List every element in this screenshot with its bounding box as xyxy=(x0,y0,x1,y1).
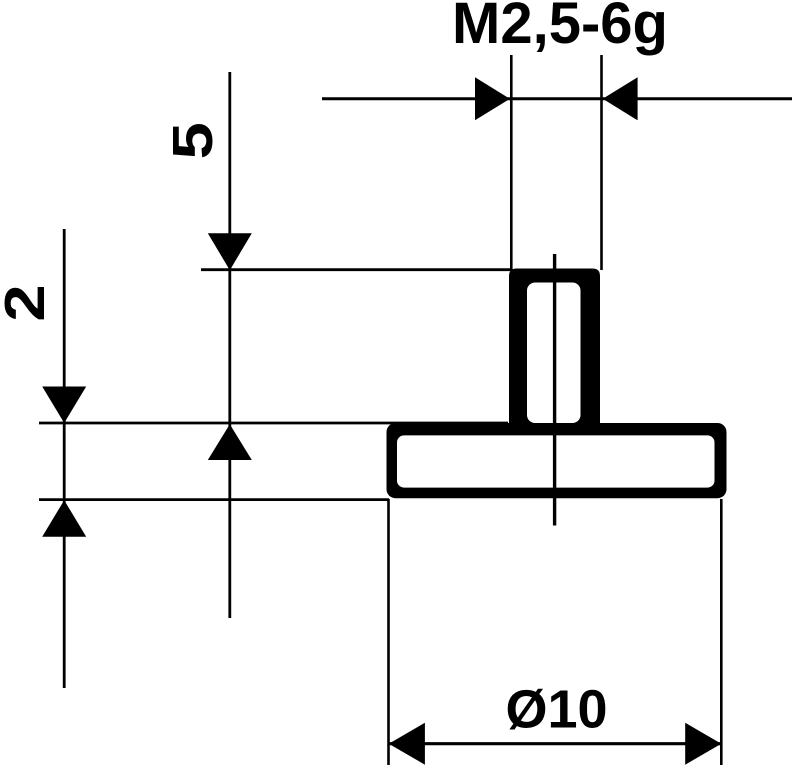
arrow up-pointing at disc top level xyxy=(208,424,252,460)
bottom dimension line xyxy=(389,742,720,745)
svg-text:5: 5 xyxy=(162,122,225,159)
extension line thread left xyxy=(510,55,513,270)
part disc outer xyxy=(387,423,727,498)
part stem outer xyxy=(509,269,600,441)
extension line thread right xyxy=(600,55,603,270)
arrow down-pointing at stem top level xyxy=(208,233,252,270)
svg-text:M2,5-6g: M2,5-6g xyxy=(452,0,668,56)
extension line disc left xyxy=(387,499,390,765)
extension line stem top xyxy=(201,268,512,271)
arrow up-pointing at disc bottom line xyxy=(42,500,86,537)
arrow down-pointing at disc top line xyxy=(42,387,86,424)
arrow left-pointing at thread right xyxy=(603,77,638,120)
dimension line 5 vertical xyxy=(228,72,231,618)
part stem inner bore (white) xyxy=(527,283,581,424)
top dimension line xyxy=(322,97,792,100)
svg-text:2: 2 xyxy=(0,284,57,321)
extension line disc top xyxy=(39,422,508,425)
part disc inner (white) xyxy=(397,435,715,487)
dimension line 2 vertical xyxy=(63,229,66,688)
center line xyxy=(553,254,556,526)
arrow right-pointing at thread left xyxy=(475,77,510,120)
svg-text:Ø10: Ø10 xyxy=(505,680,607,740)
extension line disc bottom xyxy=(39,498,389,501)
arrow right-pointing at disc right xyxy=(685,723,721,765)
arrow left-pointing at disc left xyxy=(389,723,425,765)
extension line disc right xyxy=(720,499,723,765)
